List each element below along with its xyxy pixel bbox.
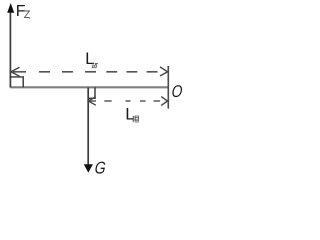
subscript 阻 (drawn) [133, 116, 139, 122]
svg-text:L: L [85, 49, 94, 68]
pivot line at O [167, 66, 169, 109]
right-angle marker at F [10, 77, 23, 87]
L动 left arrowhead [11, 67, 20, 76]
subscript 乙 (drawn) [24, 11, 30, 18]
subscript 动 (drawn) [92, 63, 98, 67]
force arrow F (shaft) [9, 12, 11, 88]
weight arrow G (shaft) [87, 88, 89, 165]
right-angle marker at G [88, 87, 95, 98]
lever bar [10, 86, 168, 88]
dashed line L阻 [88, 100, 160, 102]
force arrow F (head) [7, 3, 14, 13]
L阻 right arrowhead [161, 97, 167, 106]
weight arrow G (head) [84, 164, 93, 172]
svg-text:G: G [94, 159, 107, 176]
L动 right arrowhead [160, 67, 168, 76]
L阻 left arrowhead [88, 97, 96, 105]
dashed line L动 [13, 71, 158, 73]
svg-text:O: O [171, 83, 183, 102]
